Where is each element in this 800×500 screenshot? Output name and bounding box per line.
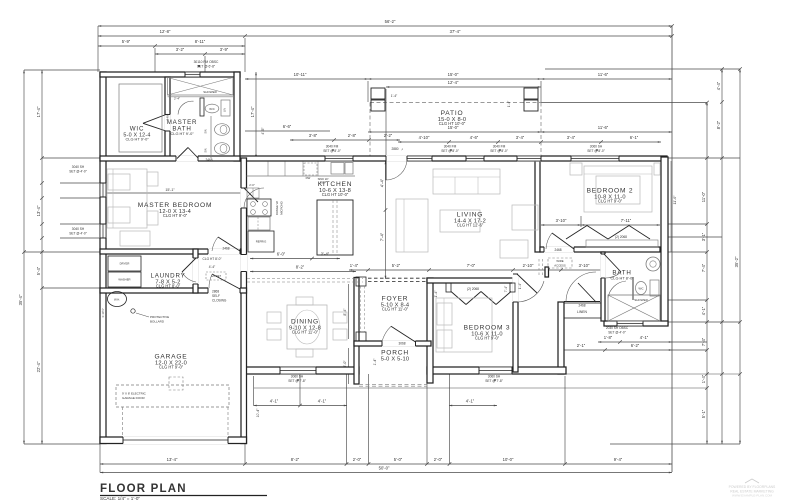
svg-text:10’-11”: 10’-11” bbox=[294, 72, 307, 77]
svg-text:4’-1”: 4’-1” bbox=[701, 306, 706, 315]
svg-text:1’-4”: 1’-4” bbox=[518, 283, 522, 289]
svg-text:3’-4”: 3’-4” bbox=[567, 135, 576, 140]
svg-text:LAUNDRY: LAUNDRY bbox=[150, 273, 185, 280]
svg-text:CLG HT 8’-0”: CLG HT 8’-0” bbox=[610, 275, 634, 280]
svg-text:7’-4”: 7’-4” bbox=[380, 232, 385, 241]
svg-text:2’-4”: 2’-4” bbox=[321, 252, 330, 257]
svg-text:13’-4”: 13’-4” bbox=[167, 457, 178, 462]
svg-text:8’-2”: 8’-2” bbox=[296, 265, 305, 270]
svg-text:SET @ 4’-0”: SET @ 4’-0” bbox=[69, 231, 87, 235]
svg-text:3’-10”: 3’-10” bbox=[579, 263, 590, 268]
svg-text:2’-0”: 2’-0” bbox=[434, 457, 443, 462]
svg-text:4’-4”: 4’-4” bbox=[209, 265, 215, 269]
svg-text:REFRIG: REFRIG bbox=[256, 240, 267, 244]
svg-text:17’-4”: 17’-4” bbox=[36, 106, 41, 117]
svg-text:(2) 2068: (2) 2068 bbox=[467, 287, 479, 291]
svg-text:CLG HT 9’-0”: CLG HT 9’-0” bbox=[159, 365, 184, 370]
svg-text:MASTER BEDROOM: MASTER BEDROOM bbox=[138, 202, 213, 209]
svg-text:3068: 3068 bbox=[398, 342, 405, 346]
svg-text:2’-1”: 2’-1” bbox=[577, 343, 586, 348]
svg-text:2’-8”: 2’-8” bbox=[348, 133, 357, 138]
svg-text:8’-2”: 8’-2” bbox=[291, 457, 300, 462]
svg-text:4’-1”: 4’-1” bbox=[466, 399, 475, 404]
svg-text:FLOOR PLAN: FLOOR PLAN bbox=[100, 483, 187, 495]
svg-text:5’-1”: 5’-1” bbox=[701, 409, 706, 418]
svg-text:5’-0”: 5’-0” bbox=[394, 457, 403, 462]
svg-text:1’-8”: 1’-8” bbox=[604, 335, 613, 340]
svg-text:6’-6”: 6’-6” bbox=[283, 124, 292, 129]
svg-text:6’-1”: 6’-1” bbox=[630, 135, 639, 140]
svg-text:CLG HT 9’-0”: CLG HT 9’-0” bbox=[598, 199, 623, 204]
svg-text:5’-2”: 5’-2” bbox=[392, 263, 401, 268]
svg-text:LINEN: LINEN bbox=[577, 310, 588, 314]
svg-text:WIRE: WIRE bbox=[556, 259, 563, 263]
svg-text:30110 FM OBSC: 30110 FM OBSC bbox=[194, 60, 219, 64]
svg-text:PROTECTIVE: PROTECTIVE bbox=[150, 315, 169, 319]
svg-text:SET @ 8’-0”: SET @ 8’-0” bbox=[490, 149, 508, 153]
svg-text:3’-2”: 3’-2” bbox=[176, 47, 185, 52]
svg-text:6’-0”: 6’-0” bbox=[277, 252, 286, 257]
svg-text:9’ X 8’ ELECTRIC: 9’ X 8’ ELECTRIC bbox=[122, 392, 147, 396]
svg-text:50’-0”: 50’-0” bbox=[379, 466, 390, 471]
svg-text:5-0 X 5-10: 5-0 X 5-10 bbox=[381, 356, 410, 362]
svg-text:7’-4”: 7’-4” bbox=[504, 286, 508, 292]
svg-text:A/C RET: A/C RET bbox=[211, 274, 222, 278]
svg-text:56’-2”: 56’-2” bbox=[385, 19, 396, 24]
svg-text:BOLLARD: BOLLARD bbox=[150, 320, 165, 324]
svg-text:1’-4”: 1’-4” bbox=[373, 359, 377, 366]
svg-text:DRYER: DRYER bbox=[120, 262, 130, 266]
svg-text:GARAGE DOOR: GARAGE DOOR bbox=[122, 396, 146, 400]
svg-text:FOYER: FOYER bbox=[382, 295, 409, 302]
svg-text:SIN: SIN bbox=[204, 129, 208, 133]
svg-text:2468: 2468 bbox=[578, 304, 585, 308]
svg-text:SHOWER: SHOWER bbox=[203, 90, 217, 94]
svg-text:3’-8”: 3’-8” bbox=[309, 133, 318, 138]
svg-text:37’-4”: 37’-4” bbox=[450, 29, 461, 34]
svg-text:1’-4”: 1’-4” bbox=[350, 263, 359, 268]
svg-text:RANGE W/: RANGE W/ bbox=[275, 201, 279, 215]
svg-text:4’-1”: 4’-1” bbox=[318, 399, 327, 404]
svg-text:CLG HT 9’-0”: CLG HT 9’-0” bbox=[475, 336, 500, 341]
svg-text:BEDROOM 3: BEDROOM 3 bbox=[464, 325, 511, 332]
svg-text:3’-9”: 3’-9” bbox=[220, 47, 229, 52]
svg-text:DW: DW bbox=[306, 176, 311, 180]
svg-text:4’-10”: 4’-10” bbox=[419, 135, 430, 140]
svg-text:11’-6”: 11’-6” bbox=[598, 72, 609, 77]
svg-text:1’-4”: 1’-4” bbox=[391, 94, 397, 98]
svg-text:8’-4”: 8’-4” bbox=[343, 308, 347, 316]
svg-text:5’-4”: 5’-4” bbox=[36, 266, 41, 275]
svg-text:SIN: SIN bbox=[204, 148, 208, 152]
svg-text:12’-8”: 12’-8” bbox=[160, 29, 171, 34]
svg-text:KITCHEN: KITCHEN bbox=[318, 181, 353, 188]
svg-text:SET @ 7’-8”: SET @ 7’-8” bbox=[288, 379, 306, 383]
svg-text:SET @ 8’-0”: SET @ 8’-0” bbox=[441, 149, 459, 153]
svg-text:17’-4”: 17’-4” bbox=[250, 106, 255, 117]
svg-text:SET @ 7’-8”: SET @ 7’-8” bbox=[485, 379, 503, 383]
svg-text:22’-4”: 22’-4” bbox=[36, 361, 41, 372]
svg-text:POWERED BY FLOORPLANS: POWERED BY FLOORPLANS bbox=[729, 485, 776, 489]
svg-text:5’-9”: 5’-9” bbox=[122, 39, 131, 44]
svg-text:(2) 2068: (2) 2068 bbox=[615, 235, 627, 239]
svg-text:7’-4”: 7’-4” bbox=[701, 263, 706, 272]
svg-text:2’-2”: 2’-2” bbox=[384, 133, 393, 138]
svg-text:W/C: W/C bbox=[209, 107, 214, 111]
svg-text:11’-0”: 11’-0” bbox=[701, 191, 706, 202]
svg-text:4’-5”: 4’-5” bbox=[261, 127, 265, 135]
svg-text:SCALE: 1/4” = 1’-0”: SCALE: 1/4” = 1’-0” bbox=[100, 496, 140, 500]
svg-text:7’-11”: 7’-11” bbox=[621, 218, 632, 223]
svg-text:1’-10½”: 1’-10½” bbox=[101, 308, 105, 318]
svg-text:7’-0”: 7’-0” bbox=[467, 263, 476, 268]
svg-text:2468: 2468 bbox=[222, 247, 229, 251]
svg-text:1’-4”: 1’-4” bbox=[507, 101, 511, 107]
svg-text:4’-4”: 4’-4” bbox=[716, 81, 721, 90]
svg-text:W/C: W/C bbox=[638, 287, 643, 291]
svg-text:11’-6”: 11’-6” bbox=[598, 125, 609, 130]
svg-text:2’-0”: 2’-0” bbox=[249, 183, 255, 187]
svg-text:4’-6”: 4’-6” bbox=[470, 135, 479, 140]
svg-text:35’-2”: 35’-2” bbox=[734, 256, 739, 267]
svg-text:SET @ 4’-0”: SET @ 4’-0” bbox=[69, 169, 87, 173]
svg-text:2’-0”: 2’-0” bbox=[353, 457, 362, 462]
svg-text:CLG HT 9’-0”: CLG HT 9’-0” bbox=[125, 137, 149, 142]
svg-text:4’-1”: 4’-1” bbox=[270, 399, 279, 404]
svg-text:2’-10”: 2’-10” bbox=[523, 263, 534, 268]
svg-text:3’-10”: 3’-10” bbox=[556, 218, 567, 223]
svg-text:LIN: LIN bbox=[223, 108, 227, 112]
svg-text:2868: 2868 bbox=[212, 290, 219, 294]
svg-text:WWW.EXAMPLE-PLAN.COM: WWW.EXAMPLE-PLAN.COM bbox=[732, 494, 773, 498]
svg-text:SET @ 8’-0”: SET @ 8’-0” bbox=[323, 149, 341, 153]
svg-text:13’-4”: 13’-4” bbox=[36, 205, 41, 216]
svg-text:2468: 2468 bbox=[205, 158, 212, 162]
svg-text:CLG HT 9’-0”: CLG HT 9’-0” bbox=[163, 213, 188, 218]
svg-text:3’-4”: 3’-4” bbox=[516, 135, 525, 140]
svg-text:4’-1”: 4’-1” bbox=[640, 335, 649, 340]
svg-text:SET @ 8’-0”: SET @ 8’-0” bbox=[587, 149, 605, 153]
svg-text:MICROHD: MICROHD bbox=[280, 201, 284, 214]
svg-text:CLOSING: CLOSING bbox=[212, 299, 227, 303]
svg-text:LIVING: LIVING bbox=[457, 212, 483, 219]
svg-text:SET @ 4’-0”: SET @ 4’-0” bbox=[608, 330, 626, 334]
svg-text:SHOWER: SHOWER bbox=[634, 298, 648, 302]
svg-text:35’-4”: 35’-4” bbox=[18, 294, 23, 305]
svg-text:2468: 2468 bbox=[554, 248, 561, 252]
svg-text:12’-4”: 12’-4” bbox=[448, 80, 459, 85]
svg-text:15’-0”: 15’-0” bbox=[448, 72, 459, 77]
svg-text:ACCESS: ACCESS bbox=[554, 264, 566, 268]
svg-text:GARAGE: GARAGE bbox=[154, 354, 187, 361]
svg-text:1’-4”: 1’-4” bbox=[701, 374, 706, 383]
svg-text:CLG HT 10’-0”: CLG HT 10’-0” bbox=[439, 121, 466, 126]
svg-text:8’-11”: 8’-11” bbox=[195, 39, 206, 44]
svg-text:DINING: DINING bbox=[291, 319, 319, 326]
svg-text:2’-4”: 2’-4” bbox=[174, 97, 180, 101]
svg-text:9’-4”: 9’-4” bbox=[614, 457, 623, 462]
svg-text:8’-2”: 8’-2” bbox=[716, 120, 721, 129]
svg-text:11’-0”: 11’-0” bbox=[673, 195, 677, 205]
svg-text:CLG HT 10’-0”: CLG HT 10’-0” bbox=[322, 192, 349, 197]
svg-text:CLG HT 8’-0”: CLG HT 8’-0” bbox=[203, 257, 222, 261]
svg-text:CLG HT 11’-0”: CLG HT 11’-0” bbox=[292, 330, 319, 335]
svg-text:15’-1”: 15’-1” bbox=[165, 188, 175, 192]
svg-text:CLG HT 9’-0”: CLG HT 9’-0” bbox=[170, 131, 194, 136]
svg-text:W.H.: W.H. bbox=[114, 298, 120, 302]
svg-text:1’-4”: 1’-4” bbox=[434, 290, 438, 298]
svg-text:CLG HT 8’-0”: CLG HT 8’-0” bbox=[156, 284, 181, 289]
svg-text:2880: 2880 bbox=[391, 147, 398, 151]
svg-text:6’-2”: 6’-2” bbox=[631, 343, 640, 348]
svg-text:10’-4”: 10’-4” bbox=[256, 409, 260, 418]
svg-text:10’-0”: 10’-0” bbox=[503, 457, 514, 462]
svg-text:BEDROOM 2: BEDROOM 2 bbox=[587, 188, 634, 195]
svg-text:4’-4”: 4’-4” bbox=[380, 178, 385, 187]
svg-text:WASHER: WASHER bbox=[118, 278, 130, 282]
svg-text:CLG HT 11’-0”: CLG HT 11’-0” bbox=[382, 307, 409, 312]
svg-text:SELF: SELF bbox=[212, 294, 220, 298]
svg-text:CLG HT 12’-6”: CLG HT 12’-6” bbox=[457, 223, 484, 228]
